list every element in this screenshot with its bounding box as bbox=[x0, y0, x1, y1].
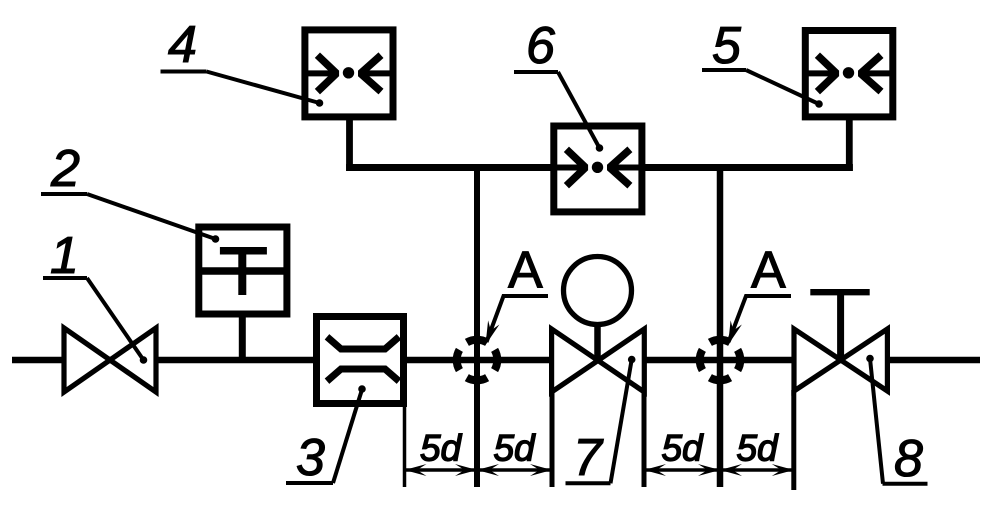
wire: stub from box 5 down to manifold bbox=[846, 118, 853, 171]
extension line below box 3 bbox=[403, 404, 407, 487]
valve V8 T-handle bar bbox=[810, 289, 869, 295]
value label 5d (second span) bbox=[494, 434, 535, 461]
label 5 bbox=[702, 27, 823, 108]
label 4 bbox=[161, 26, 324, 107]
wire: stub from box 2 down to pipe bbox=[239, 314, 246, 360]
label A right bbox=[728, 252, 791, 345]
value label 5d (first span) bbox=[421, 434, 462, 461]
dimension arrowheads bbox=[405, 464, 427, 476]
extension line below valve 7 left edge bbox=[550, 390, 555, 487]
box: orifice device U4 bbox=[305, 30, 393, 117]
box: orifice device U5 bbox=[805, 31, 893, 117]
extension line below valve 8 left edge bbox=[791, 390, 796, 490]
wire: main pipe line bbox=[12, 357, 980, 364]
dimension line right pair bbox=[644, 468, 794, 472]
box: orifice device U6 bbox=[554, 126, 642, 212]
value label 5d (fourth span) bbox=[737, 434, 778, 461]
value label 5d (third span) bbox=[662, 434, 703, 461]
label A left bbox=[486, 252, 549, 345]
valve V7 actuator circle bbox=[564, 257, 632, 325]
box: flow straightener U3 bbox=[317, 317, 404, 404]
label 1 bbox=[43, 237, 147, 364]
label 2 bbox=[41, 150, 219, 243]
wire: impulse manifold horizontal bbox=[346, 164, 853, 171]
valve V8 (valve body) bbox=[794, 329, 887, 391]
label 3 bbox=[286, 385, 366, 483]
valve V7 actuator stem bbox=[594, 322, 601, 361]
wire: stub from box 4 down to manifold bbox=[346, 118, 353, 171]
valve V1 (gate valve) bbox=[64, 328, 156, 392]
label 7 bbox=[566, 356, 636, 484]
extension line below valve 7 right edge bbox=[642, 390, 647, 487]
node A right: dashed circle bbox=[700, 340, 741, 381]
wire: vertical branch through left node A bbox=[474, 164, 480, 487]
valve V8 T-handle stem bbox=[837, 292, 844, 360]
wire: vertical branch through right node A bbox=[717, 164, 724, 487]
label 6 bbox=[514, 27, 603, 152]
dimension line left pair bbox=[405, 468, 553, 472]
valve V7 (control valve body) bbox=[552, 329, 645, 392]
node A left: dashed circle bbox=[457, 340, 498, 381]
box: thermometer pocket U2 bbox=[199, 227, 287, 314]
label 8 bbox=[866, 355, 927, 484]
